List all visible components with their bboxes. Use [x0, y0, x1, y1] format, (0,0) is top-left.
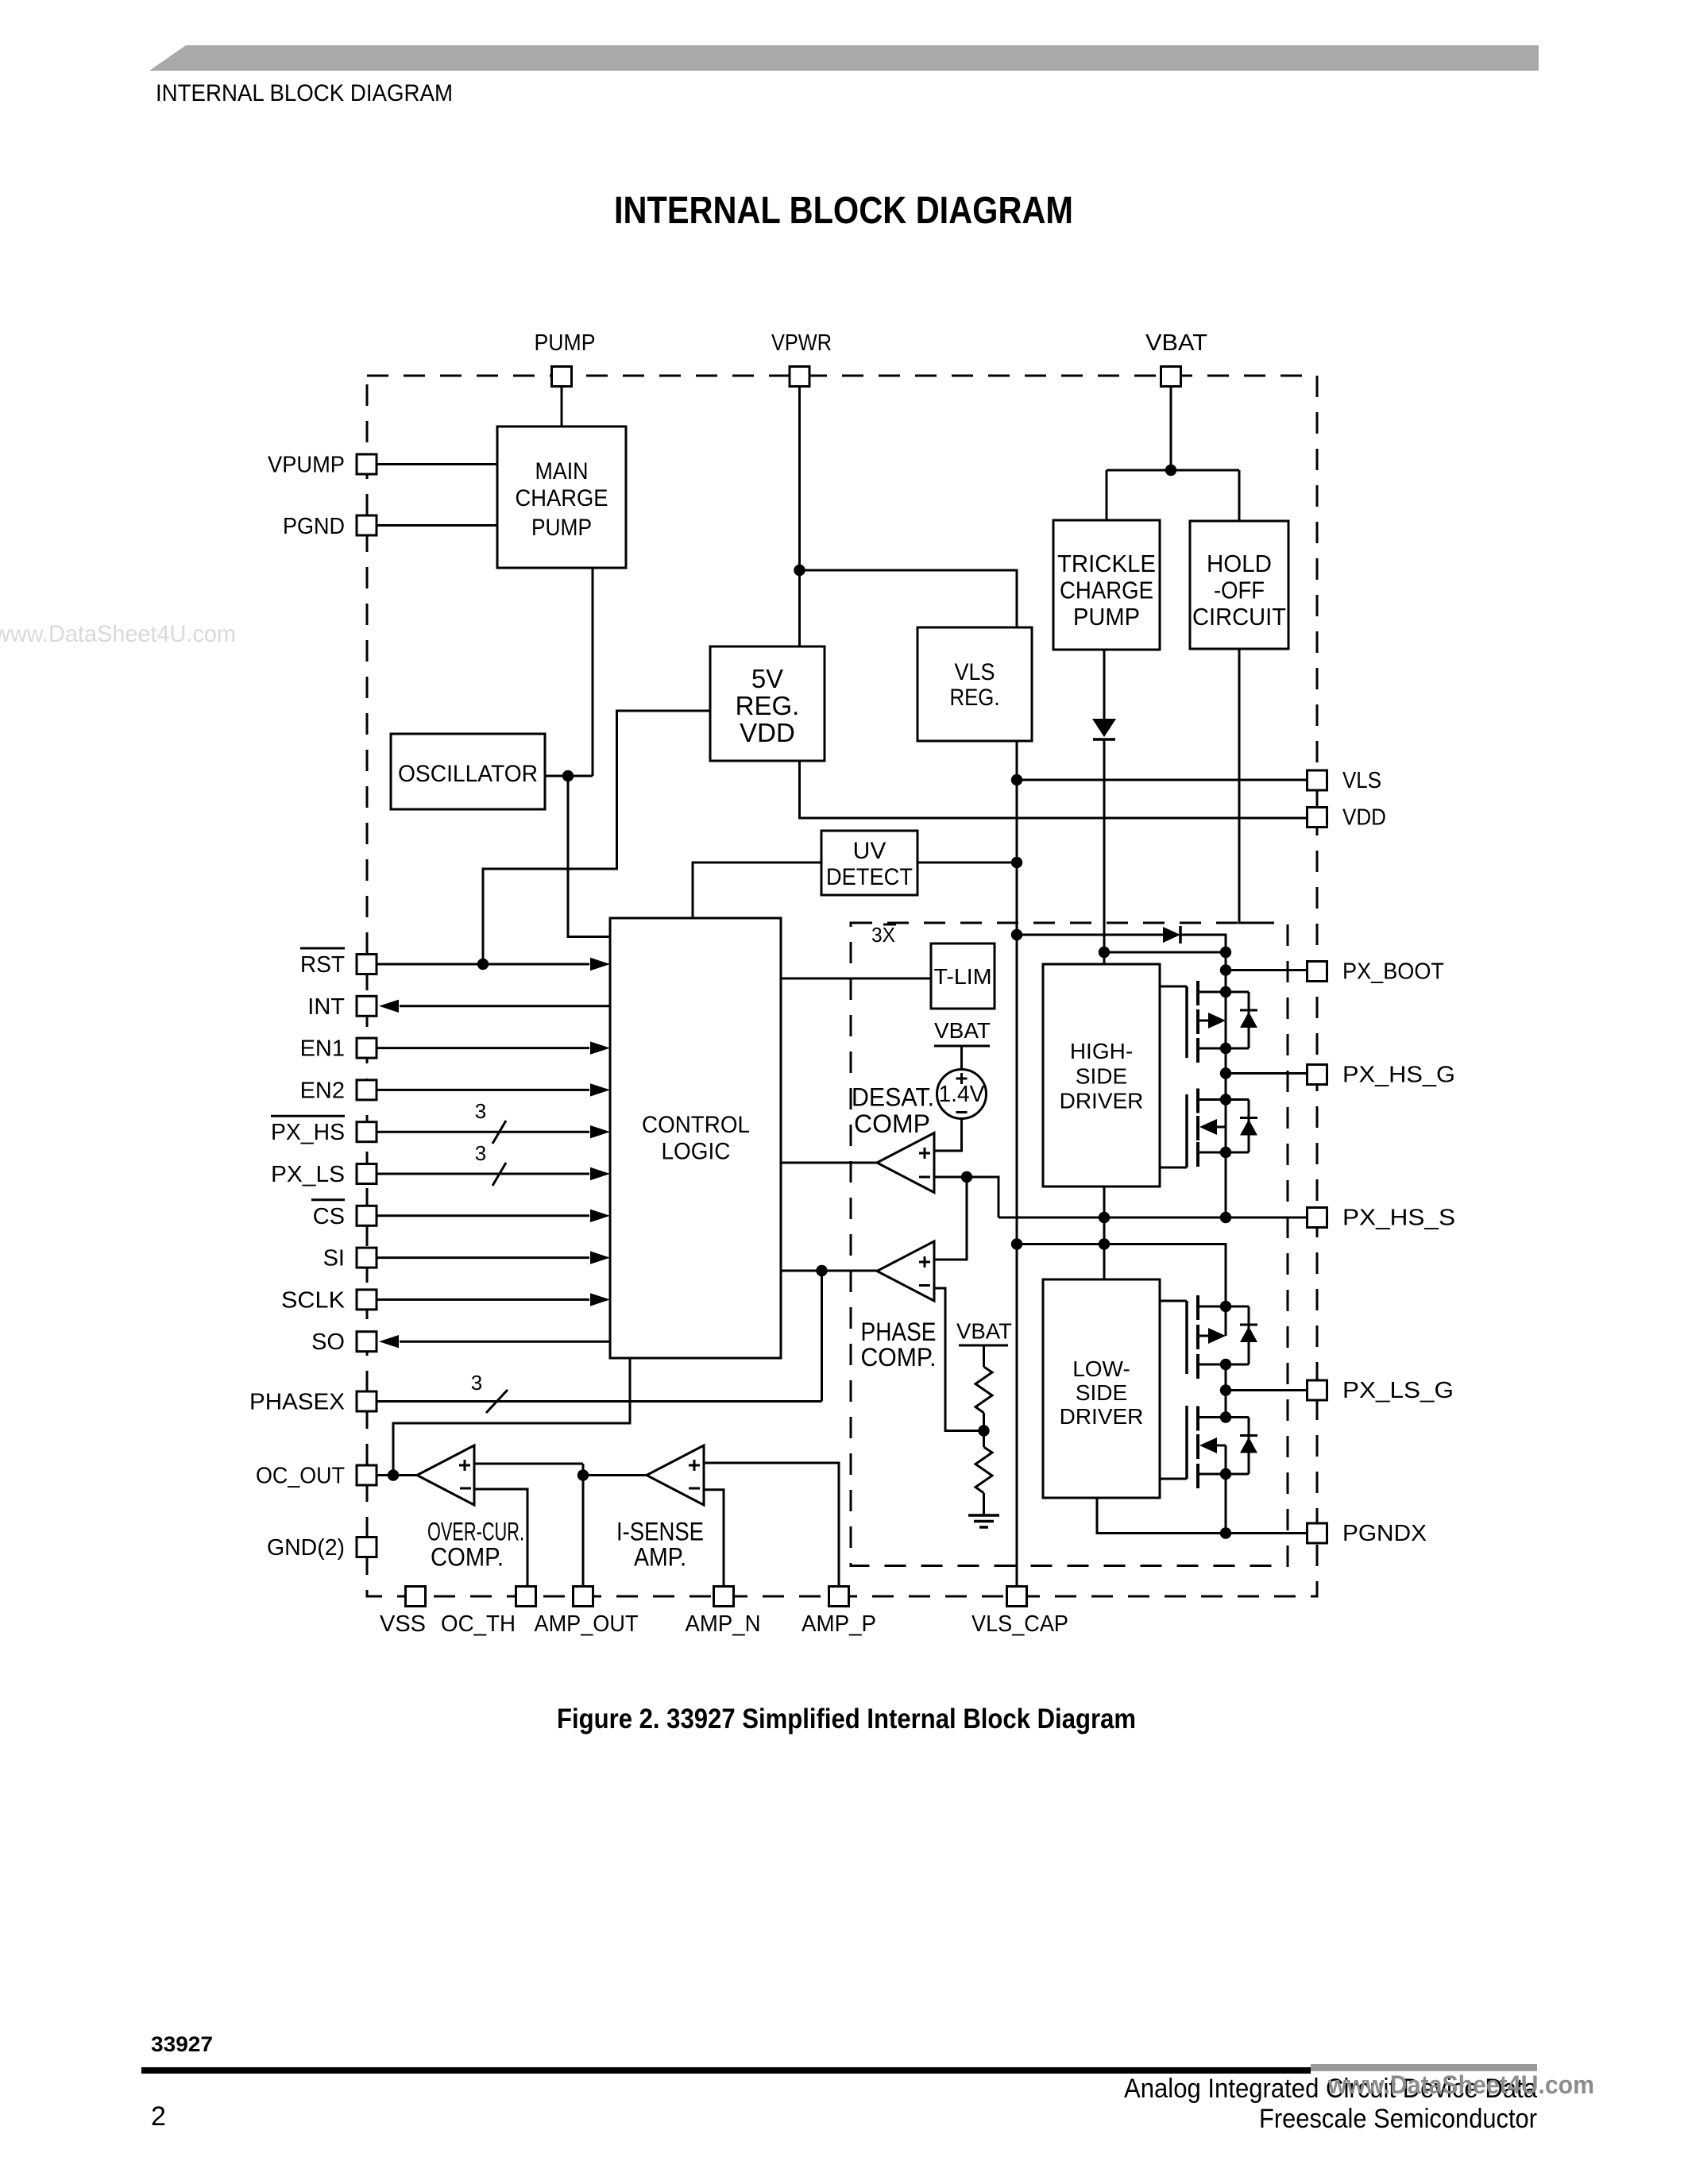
- terminal PGNDX: [1308, 1523, 1327, 1543]
- terminal VLS_CAP: [1007, 1587, 1027, 1607]
- svg-text:SIDE: SIDE: [1076, 1380, 1127, 1405]
- svg-text:PUMP: PUMP: [531, 515, 592, 541]
- svg-text:T-LIM: T-LIM: [934, 964, 992, 989]
- junction UV/VLS_CAP: [1011, 857, 1022, 868]
- junction RST node: [477, 959, 489, 970]
- svg-text:SCLK: SCLK: [281, 1287, 346, 1313]
- svg-text:DESAT.: DESAT.: [852, 1083, 934, 1112]
- header gray banner: [149, 45, 1539, 71]
- wire INT: [400, 1005, 610, 1007]
- wire Q3-Q4 link: [1225, 1364, 1227, 1418]
- terminal SO: [357, 1332, 377, 1352]
- svg-text:www.DataSheet4U.com: www.DataSheet4U.com: [1327, 2070, 1594, 2099]
- junction PX_BOOT node: [1220, 964, 1231, 975]
- svg-text:5V: 5V: [751, 664, 783, 693]
- svg-text:CS: CS: [313, 1204, 345, 1229]
- terminal OC_OUT: [357, 1465, 377, 1485]
- wire VBAT to R1: [983, 1345, 985, 1367]
- block OSCILLATOR: [391, 734, 545, 809]
- svg-text:GND(2): GND(2): [267, 1535, 345, 1561]
- wire phase - input to divider: [934, 1288, 984, 1431]
- wire i-sense + input to AMP_P: [704, 1463, 839, 1587]
- terminal VPUMP: [357, 454, 377, 474]
- svg-text:I-SENSE: I-SENSE: [616, 1518, 704, 1546]
- svg-text:LOGIC: LOGIC: [662, 1139, 731, 1165]
- wire VLS to terminal: [1017, 779, 1307, 781]
- svg-text:33927: 33927: [151, 2032, 213, 2056]
- svg-text:3: 3: [471, 1371, 482, 1395]
- svg-text:www.DataSheet4U.com: www.DataSheet4U.com: [0, 621, 236, 647]
- block MAIN CHARGE PUMP: [497, 426, 626, 568]
- svg-text:OSCILLATOR: OSCILLATOR: [398, 761, 538, 787]
- svg-text:UV: UV: [853, 838, 886, 864]
- wire VLS rail to low-side FETs: [1017, 1244, 1226, 1307]
- svg-text:HIGH-: HIGH-: [1070, 1039, 1133, 1063]
- terminal SCLK: [357, 1290, 377, 1310]
- terminal GND(2): [357, 1538, 377, 1557]
- svg-text:AMP_P: AMP_P: [802, 1611, 876, 1637]
- block UV DETECT: [821, 831, 917, 895]
- junction Q1 drain: [1220, 986, 1231, 997]
- junction phase/PHASEX node: [816, 1265, 827, 1276]
- junction VPWR node: [794, 565, 805, 576]
- wire over-cur + input: [474, 1463, 583, 1465]
- wire desat - input: [934, 1176, 967, 1179]
- body diode Q3: [1248, 1306, 1250, 1364]
- terminal VLS: [1308, 770, 1327, 790]
- terminal PGND: [357, 515, 377, 535]
- svg-text:Freescale Semiconductor: Freescale Semiconductor: [1259, 2104, 1537, 2134]
- svg-text:-OFF: -OFF: [1214, 577, 1265, 604]
- wire to hold-off circuit: [1238, 470, 1241, 521]
- svg-text:OC_OUT: OC_OUT: [256, 1464, 345, 1489]
- junction Q2 drain: [1220, 1094, 1231, 1105]
- wire PHASEX: [377, 1400, 822, 1403]
- replication dashed box 3X: [851, 923, 1288, 1566]
- wire VDD output: [800, 761, 1308, 818]
- solid border segment between VLS and VDD: [1316, 781, 1319, 817]
- svg-text:3X: 3X: [871, 923, 895, 947]
- junction oscillator/charge-pump node: [562, 770, 574, 781]
- terminal PX_HS: [357, 1122, 377, 1142]
- junction Q3 source: [1220, 1359, 1231, 1370]
- junction Q2 source: [1220, 1147, 1231, 1158]
- terminal EN2: [357, 1080, 377, 1100]
- resistor R2: [975, 1447, 992, 1493]
- bus slash PHASEX: [486, 1390, 508, 1413]
- block HOLD -OFF CIRCUIT: [1190, 521, 1288, 649]
- svg-text:VPWR: VPWR: [771, 330, 832, 356]
- junction FET rail / bootstrap: [1220, 947, 1231, 958]
- terminal EN1: [357, 1038, 377, 1058]
- svg-text:COMP.: COMP.: [861, 1343, 937, 1372]
- wire VLS_CAP rail to bootstrap diode: [1017, 934, 1163, 936]
- svg-text:PHASEX: PHASEX: [249, 1390, 345, 1415]
- svg-text:SIDE: SIDE: [1076, 1064, 1127, 1089]
- terminal AMP_N: [714, 1587, 734, 1607]
- terminal PHASEX: [357, 1391, 377, 1411]
- junction AMP_OUT / i-sense output: [577, 1469, 589, 1480]
- wire node to R2: [983, 1431, 985, 1448]
- svg-text:3: 3: [475, 1141, 486, 1165]
- block 5V REG. VDD: [710, 646, 825, 761]
- transistor Q3: [1160, 1295, 1257, 1379]
- wire Q4 source to PGNDX: [1225, 1474, 1227, 1534]
- wire VLS REG output: [1016, 741, 1018, 780]
- svg-text:REG.: REG.: [736, 691, 800, 720]
- comparator OVER-CUR. COMP.: [417, 1445, 474, 1505]
- wire PUMP to main charge pump: [561, 376, 563, 426]
- wire VBAT to 1.4V source: [960, 1046, 963, 1070]
- comparator DESAT. COMP: [877, 1133, 934, 1193]
- terminal AMP_P: [829, 1587, 849, 1607]
- voltage source 1.4V: [937, 1070, 987, 1119]
- wire driver bottom to PGNDX: [1097, 1498, 1307, 1534]
- svg-text:PUMP: PUMP: [535, 330, 596, 356]
- wire AMP_OUT vertical: [582, 1464, 585, 1587]
- wire VPWR to VLS REG: [800, 570, 1018, 627]
- wire OC_OUT: [377, 1474, 417, 1476]
- junction Q4 source: [1220, 1468, 1231, 1480]
- junction low-side rail / driver column: [1099, 1238, 1110, 1249]
- svg-text:VBAT: VBAT: [934, 1018, 991, 1043]
- svg-text:PX_LS_G: PX_LS_G: [1342, 1378, 1454, 1403]
- junction Q4 drain: [1220, 1411, 1231, 1422]
- wire control logic to T-LIM: [781, 978, 931, 980]
- svg-text:SO: SO: [311, 1329, 345, 1355]
- svg-text:PX_LS: PX_LS: [271, 1162, 345, 1187]
- svg-text:EN2: EN2: [300, 1078, 345, 1103]
- transistor Q2: [1160, 1089, 1257, 1168]
- block VLS REG.: [917, 627, 1032, 741]
- junction VBAT node: [1165, 465, 1176, 476]
- svg-text:VBAT: VBAT: [1145, 330, 1207, 356]
- terminal PX_LS_G: [1308, 1380, 1327, 1400]
- terminal AMP_OUT: [574, 1587, 593, 1607]
- block T-LIM: [931, 943, 995, 1009]
- svg-text:CIRCUIT: CIRCUIT: [1192, 603, 1286, 631]
- wire oscillator node to control logic: [568, 776, 610, 937]
- wire control logic to OC_OUT node: [393, 1358, 630, 1476]
- wire VPWR vertical: [798, 376, 801, 646]
- junction desat - node: [961, 1171, 972, 1183]
- svg-text:2: 2: [151, 2101, 166, 2132]
- wire PX_LS: [377, 1173, 589, 1175]
- wire UV DETECT to control logic: [693, 862, 821, 918]
- junction OC_OUT node: [388, 1469, 399, 1480]
- wire VLS_CAP vertical rail: [1016, 780, 1018, 1587]
- body diode Q2: [1248, 1100, 1250, 1153]
- wire PX_HS: [377, 1131, 589, 1133]
- wire PX_HS_S net: [999, 1217, 1307, 1219]
- svg-text:VDD: VDD: [1342, 805, 1386, 831]
- wire EN2: [377, 1089, 589, 1091]
- svg-text:CHARGE: CHARGE: [516, 485, 608, 511]
- resistor R1: [975, 1367, 992, 1413]
- junction PGNDX node: [1220, 1527, 1231, 1538]
- svg-text:SI: SI: [323, 1246, 345, 1271]
- svg-text:LOW-: LOW-: [1072, 1356, 1130, 1381]
- svg-text:DRIVER: DRIVER: [1060, 1404, 1144, 1429]
- wire over-cur - input to OC_TH: [474, 1489, 527, 1587]
- junction divider node: [978, 1425, 989, 1436]
- wire PHASEX to phase comp node: [821, 1271, 823, 1402]
- IC boundary dashed box: [367, 376, 1317, 1596]
- svg-text:PGNDX: PGNDX: [1342, 1521, 1427, 1546]
- overline PX_HS: [271, 1115, 345, 1117]
- svg-text:VDD: VDD: [740, 718, 795, 747]
- svg-text:INTERNAL BLOCK DIAGRAM: INTERNAL BLOCK DIAGRAM: [156, 80, 453, 106]
- wire PGND: [377, 524, 497, 527]
- wire SI: [377, 1256, 589, 1259]
- wire i-sense output: [583, 1474, 647, 1476]
- bus slash PX_HS: [492, 1121, 506, 1144]
- wire 5V REG left to RST node: [483, 711, 710, 964]
- overline RST: [300, 947, 345, 950]
- svg-text:COMP: COMP: [854, 1109, 930, 1138]
- wire UV DETECT to VLS line: [917, 862, 1017, 864]
- wire desat node to phase comp +: [934, 1177, 967, 1260]
- svg-text:EN1: EN1: [300, 1036, 345, 1062]
- wire PX_LS_G: [1226, 1389, 1307, 1391]
- terminal PX_HS_S: [1308, 1208, 1327, 1228]
- svg-text:VLS: VLS: [955, 659, 995, 685]
- svg-text:1.4V: 1.4V: [939, 1082, 986, 1107]
- terminal SI: [357, 1248, 377, 1268]
- svg-text:INT: INT: [307, 994, 345, 1020]
- svg-text:3: 3: [475, 1099, 486, 1123]
- wire control logic to phase comp: [781, 1270, 877, 1272]
- svg-text:PUMP: PUMP: [1073, 603, 1140, 631]
- wire i-sense - input to AMP_N: [704, 1490, 724, 1587]
- junction VLS node: [1011, 774, 1022, 785]
- bus slash PX_LS: [492, 1163, 506, 1186]
- junction PX_HS_S / FET rail: [1220, 1212, 1231, 1223]
- wire oscillator output: [545, 775, 593, 778]
- terminal PX_BOOT: [1308, 962, 1327, 982]
- svg-text:VLS_CAP: VLS_CAP: [971, 1611, 1068, 1637]
- wire SO: [400, 1341, 610, 1343]
- wire 1.4V to desat comp +: [934, 1119, 962, 1152]
- diode D1 (trickle output): [1092, 719, 1116, 739]
- wire hold-off output: [1239, 649, 1261, 923]
- svg-text:DETECT: DETECT: [826, 864, 913, 890]
- wire VBAT branch: [1107, 469, 1239, 472]
- svg-text:COMP.: COMP.: [431, 1543, 504, 1572]
- svg-text:INTERNAL BLOCK DIAGRAM: INTERNAL BLOCK DIAGRAM: [614, 190, 1073, 232]
- wire driver bottom to PX_HS_S: [1103, 1187, 1106, 1279]
- comparator PHASE COMP.: [877, 1241, 934, 1301]
- diode D2 (bootstrap): [1163, 926, 1180, 943]
- transistor Q4: [1160, 1406, 1257, 1488]
- footer rule: [141, 2067, 1311, 2074]
- block HIGH-SIDE DRIVER: [1043, 964, 1160, 1187]
- svg-text:VPUMP: VPUMP: [268, 453, 345, 478]
- wire SCLK: [377, 1298, 589, 1301]
- svg-text:VSS: VSS: [380, 1611, 426, 1637]
- svg-text:PX_HS: PX_HS: [271, 1120, 345, 1145]
- wire PX_HS_G: [1226, 1072, 1307, 1075]
- svg-text:OC_TH: OC_TH: [441, 1611, 516, 1637]
- wire PX_BOOT: [1226, 969, 1307, 971]
- junction PX_LS_G node: [1220, 1384, 1231, 1395]
- terminal RST: [357, 955, 377, 974]
- body diode Q4: [1248, 1418, 1250, 1475]
- terminal CS: [357, 1206, 377, 1225]
- wire EN1: [377, 1047, 589, 1049]
- terminal VPWR: [790, 367, 809, 387]
- overline CS: [311, 1198, 345, 1201]
- wire CS: [377, 1214, 589, 1217]
- wire VPUMP: [377, 463, 497, 465]
- wire R2 to ground: [983, 1493, 985, 1515]
- svg-text:Figure 2. 33927 Simplified Int: Figure 2. 33927 Simplified Internal Bloc…: [557, 1704, 1136, 1734]
- junction Q1 source: [1220, 1043, 1231, 1054]
- svg-text:PX_HS_G: PX_HS_G: [1342, 1063, 1455, 1088]
- wire diode to high-side driver: [1103, 739, 1106, 964]
- transistor Q1: [1160, 981, 1257, 1063]
- svg-text:REG.: REG.: [950, 685, 1000, 711]
- ground: [968, 1515, 999, 1527]
- svg-text:PX_HS_S: PX_HS_S: [1342, 1206, 1455, 1231]
- block LOW-SIDE DRIVER: [1043, 1279, 1160, 1498]
- svg-text:PGND: PGND: [283, 514, 345, 539]
- junction PX_HS_S / driver: [1099, 1212, 1110, 1223]
- terminal OC_TH: [516, 1587, 536, 1607]
- wire control logic to desat comp output: [781, 1162, 877, 1164]
- svg-text:CHARGE: CHARGE: [1060, 577, 1153, 604]
- junction Q3 drain: [1220, 1301, 1231, 1312]
- svg-text:MAIN: MAIN: [535, 458, 589, 484]
- svg-text:AMP_OUT: AMP_OUT: [535, 1611, 639, 1637]
- svg-text:AMP_N: AMP_N: [686, 1611, 761, 1637]
- terminal PX_LS: [357, 1164, 377, 1184]
- block CONTROL LOGIC: [610, 918, 781, 1358]
- junction bootstrap diode node: [1011, 929, 1022, 940]
- wire bootstrap diode to FET rail: [1180, 935, 1226, 1217]
- svg-text:HOLD: HOLD: [1207, 550, 1272, 577]
- terminal PX_HS_G: [1308, 1065, 1327, 1085]
- wire bootstrap node link: [1104, 951, 1226, 954]
- svg-text:OVER-CUR.: OVER-CUR.: [427, 1518, 524, 1546]
- svg-text:VBAT: VBAT: [956, 1319, 1012, 1344]
- junction PX_HS_G node: [1220, 1067, 1231, 1078]
- junction bootstrap node at driver top: [1099, 947, 1110, 958]
- svg-text:AMP.: AMP.: [634, 1543, 686, 1572]
- terminal VDD: [1308, 808, 1327, 828]
- wire trickle pump output: [1103, 650, 1106, 719]
- wire to trickle charge pump: [1106, 470, 1108, 520]
- wire main charge pump output down: [592, 568, 594, 776]
- block TRICKLE CHARGE PUMP: [1053, 520, 1160, 650]
- body diode Q1: [1248, 992, 1250, 1048]
- terminal INT: [357, 996, 377, 1016]
- terminal PUMP: [552, 367, 572, 387]
- svg-text:TRICKLE: TRICKLE: [1057, 550, 1156, 577]
- junction VLS to low-side rail: [1011, 1238, 1022, 1249]
- svg-text:DRIVER: DRIVER: [1060, 1089, 1144, 1113]
- svg-text:CONTROL: CONTROL: [642, 1112, 750, 1138]
- svg-text:VLS: VLS: [1342, 768, 1381, 793]
- svg-text:RST: RST: [300, 952, 345, 978]
- terminal VBAT: [1161, 367, 1181, 387]
- wire R1 to node: [983, 1413, 985, 1431]
- wire VBAT vertical: [1170, 376, 1172, 470]
- wire RST: [377, 963, 589, 966]
- svg-text:PHASE: PHASE: [861, 1318, 937, 1346]
- terminal VSS: [406, 1587, 426, 1607]
- op-amp I-SENSE AMP.: [647, 1445, 704, 1505]
- svg-text:PX_BOOT: PX_BOOT: [1342, 959, 1444, 985]
- wire desat node to PX_HS_S net: [967, 1177, 999, 1217]
